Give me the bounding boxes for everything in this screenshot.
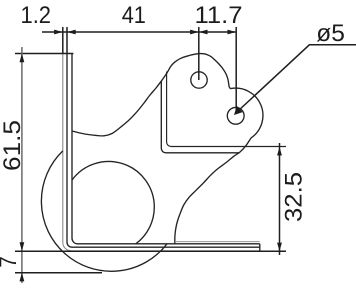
left dim line (61.5 / 7) [21, 47, 23, 283]
svg-text:11.7: 11.7 [195, 2, 243, 29]
heart tab outer edge (left + bottom) [161, 82, 239, 153]
extension line: flange outer up [62, 27, 64, 54]
arrowhead 61.5 top [20, 54, 25, 63]
extension line: ball bottom (7) [15, 272, 102, 274]
ball inner circle [72, 161, 154, 243]
wire: outer flange surface (vertical + bend + bottom) [63, 54, 260, 251]
svg-text:41: 41 [122, 2, 146, 29]
arrowhead leader Ø5 [234, 106, 243, 115]
wire: flange end cap [259, 244, 261, 252]
ball outer circle (silhouette) [41, 151, 167, 271]
face plate outline [72, 54, 263, 244]
arrowhead 11.7 right [228, 30, 237, 35]
arrowhead 61.5 bottom [20, 242, 25, 251]
svg-text:32.5: 32.5 [281, 172, 308, 222]
leader line Ø5 [238, 45, 356, 111]
extension line: hole2 center [235, 27, 237, 113]
svg-text:ø5: ø5 [316, 20, 345, 47]
wire: inner flange surface [67, 54, 260, 248]
arrowhead 41 right [190, 30, 199, 35]
top dim line [42, 31, 236, 33]
arrowhead 1.2 left [54, 30, 63, 35]
extension line: top of part (61.5) [15, 53, 73, 55]
extension line: part bottom left [15, 250, 286, 252]
arrowhead 7 bottom (outside, pointing up) [20, 273, 25, 282]
arrowhead 1.2 right / 41 left [67, 30, 76, 35]
arrowhead 32.5 top [277, 147, 282, 156]
wire: hem line bottom [176, 241, 260, 243]
svg-text:1.2: 1.2 [21, 2, 52, 29]
wire: face plate fold edge [72, 54, 260, 244]
arrowhead 11.7 left [199, 30, 208, 35]
svg-text:7: 7 [0, 256, 22, 268]
svg-text:61.5: 61.5 [0, 120, 26, 171]
heart tab inner fold edge (left + bottom, extends right as 32.5 extension) [167, 72, 286, 147]
hole 2 (right, Ø5) [227, 107, 244, 124]
extension line: flange inner up [66, 27, 68, 54]
right dim line (32.5) [279, 143, 281, 255]
extension line: hole1 center [198, 27, 200, 80]
arrowhead 32.5 bottom [277, 243, 282, 252]
hole 1 (top, Ø5) [191, 72, 207, 88]
